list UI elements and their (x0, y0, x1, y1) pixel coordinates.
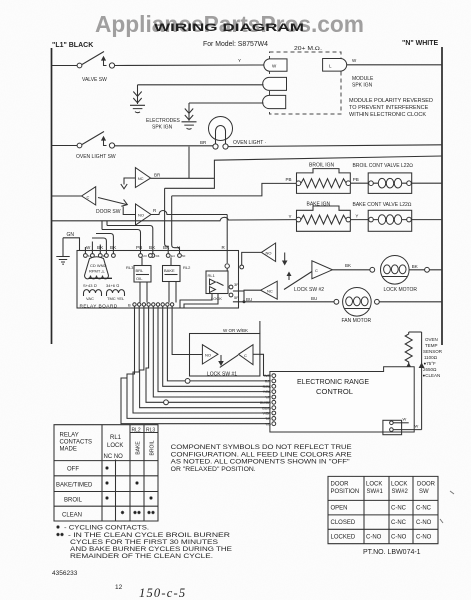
svg-text:C-NO: C-NO (391, 535, 407, 541)
svg-text:LOCKED: LOCKED (331, 535, 356, 541)
svg-text:WIRING DIAGRAM: WIRING DIAGRAM (154, 22, 304, 34)
svg-text:WITHIN ELECTRONIC CLOCK: WITHIN ELECTRONIC CLOCK (349, 112, 426, 118)
svg-text:2650Ω: 2650Ω (423, 367, 437, 372)
svg-text:For Model: S8757W4: For Model: S8757W4 (203, 41, 268, 48)
svg-text:VAC: VAC (86, 296, 94, 301)
svg-text:MODULE POLARITY REVERSED: MODULE POLARITY REVERSED (349, 98, 433, 104)
svg-text:BK: BK (412, 264, 418, 269)
svg-text:OIL: OIL (136, 276, 143, 281)
svg-text:C-NO: C-NO (366, 535, 382, 541)
svg-text:B: B (128, 303, 131, 308)
svg-text:BAKE CONT VALVE L22Ω: BAKE CONT VALVE L22Ω (353, 202, 412, 208)
svg-text:REMAINDER OF THE CLEAN CYCLE.: REMAINDER OF THE CLEAN CYCLE. (70, 554, 213, 560)
svg-text:CYCLES FOR THE FIRST 30 MINUTE: CYCLES FOR THE FIRST 30 MINUTES (70, 540, 218, 546)
svg-text:CD WND: CD WND (90, 263, 107, 268)
svg-text:20+ M.Ω.: 20+ M.Ω. (294, 46, 322, 52)
svg-text:- CYCLING CONTACTS.: - CYCLING CONTACTS. (64, 526, 149, 532)
svg-text:SPK IGN: SPK IGN (352, 83, 373, 89)
svg-text:SW#2: SW#2 (392, 489, 409, 495)
svg-text:POSITION: POSITION (331, 489, 360, 495)
svg-text:BK: BK (110, 245, 117, 250)
svg-text:RL3: RL3 (146, 428, 155, 434)
svg-text:LOCK: LOCK (391, 482, 407, 488)
svg-text:NO: NO (138, 213, 144, 218)
svg-text:R/BK: R/BK (263, 385, 272, 389)
svg-text:BROIL CONT VALVE L22Ω: BROIL CONT VALVE L22Ω (353, 163, 414, 169)
svg-text:MODULE: MODULE (352, 76, 374, 82)
svg-text:AND BAKE BURNER CYCLES DURING: AND BAKE BURNER CYCLES DURING THE (70, 547, 232, 553)
svg-text:LOCK: LOCK (107, 443, 123, 449)
svg-text:COMPONENT SYMBOLS DO NOT REFLE: COMPONENT SYMBOLS DO NOT REFLECT TRUE (171, 445, 352, 451)
svg-text:OVEN: OVEN (425, 337, 438, 342)
svg-text:12: 12 (115, 584, 123, 591)
svg-text:TO PREVENT INTERFERENCE: TO PREVENT INTERFERENCE (349, 105, 429, 111)
svg-text:Y: Y (289, 214, 292, 219)
svg-text:BU: BU (246, 297, 252, 302)
svg-text:3F: 3F (234, 282, 239, 287)
svg-text:FAN MOTOR: FAN MOTOR (342, 318, 372, 324)
svg-text:C-NC: C-NC (416, 506, 432, 512)
svg-text:NC NO: NC NO (104, 454, 124, 460)
svg-text:RPMT △: RPMT △ (89, 269, 105, 274)
svg-text:AS NOTED. ALL COMPONENTS SHOWN: AS NOTED. ALL COMPONENTS SHOWN IN "OFF" (171, 460, 350, 466)
svg-text:LOCK: LOCK (211, 296, 222, 301)
svg-text:OPEN: OPEN (331, 506, 348, 512)
svg-text:OFF: OFF (67, 467, 79, 473)
svg-text:RL2: RL2 (183, 265, 191, 270)
svg-text:W OR W/BK: W OR W/BK (223, 328, 248, 333)
svg-text:LOCK SW #2: LOCK SW #2 (294, 287, 324, 293)
svg-text:DOOR SW: DOOR SW (96, 209, 121, 215)
svg-text:MADE: MADE (60, 447, 77, 453)
svg-text:CLEAN: CLEAN (62, 513, 82, 519)
svg-text:RL3: RL3 (126, 265, 134, 270)
svg-text:RL2: RL2 (132, 428, 141, 434)
svg-text:C-NC: C-NC (391, 506, 407, 512)
svg-text:34+6 Ω: 34+6 Ω (106, 283, 119, 288)
svg-text:4356233: 4356233 (52, 570, 78, 577)
svg-text:23: 23 (143, 254, 147, 258)
svg-text:C: C (244, 353, 247, 358)
svg-text:C: C (315, 268, 318, 273)
svg-text:Y/D: Y/D (265, 422, 271, 426)
svg-text:BROIL: BROIL (64, 498, 83, 504)
svg-text:RELAY: RELAY (60, 433, 79, 439)
svg-text:W: W (403, 417, 407, 422)
svg-text:- IN THE CLEAN CYCLE BROIL BUR: - IN THE CLEAN CYCLE BROIL BURNER (68, 533, 231, 539)
svg-text:D4: D4 (156, 254, 160, 258)
svg-text:PB: PB (286, 177, 292, 182)
svg-text:CLOSED: CLOSED (331, 520, 356, 526)
svg-text:Y/R: Y/R (265, 396, 271, 400)
svg-text:NC: NC (267, 289, 273, 294)
svg-text:SENSOR: SENSOR (423, 349, 443, 354)
svg-text:C-NC: C-NC (391, 520, 407, 526)
svg-text:BAKE: BAKE (136, 441, 142, 455)
svg-text:OVEN LIGHT SW: OVEN LIGHT SW (76, 154, 116, 160)
svg-text:CONTACTS: CONTACTS (60, 440, 93, 446)
svg-text:VALVE SW: VALVE SW (82, 77, 107, 83)
svg-text:●CLEAN: ●CLEAN (423, 373, 441, 378)
svg-text:LOCK SW #1: LOCK SW #1 (207, 372, 237, 378)
svg-text:Y: Y (355, 214, 358, 219)
svg-text:PT.NO. LBW074-1: PT.NO. LBW074-1 (363, 549, 421, 556)
svg-text:PB: PB (353, 177, 359, 182)
svg-text:Y/BK: Y/BK (263, 390, 272, 394)
svg-text:BK: BK (97, 245, 104, 250)
svg-text:CONFIGURATION. ALL FEED LINE C: CONFIGURATION. ALL FEED LINE COLORS ARE (171, 452, 352, 458)
svg-text:E4: E4 (171, 254, 175, 258)
svg-text:BR: BR (200, 140, 207, 145)
svg-text:BR: BR (154, 173, 161, 178)
svg-text:"N" WHITE: "N" WHITE (402, 40, 439, 47)
svg-text:ELECTRODES: ELECTRODES (146, 118, 181, 124)
svg-text:C-NO: C-NO (416, 535, 432, 541)
svg-text:BU/BR: BU/BR (260, 401, 271, 405)
svg-text:C: C (87, 195, 90, 200)
svg-text:W: W (86, 245, 91, 250)
svg-text:5F: 5F (182, 254, 186, 258)
svg-text:BAKE/TIMED: BAKE/TIMED (56, 483, 93, 489)
svg-text:LOCK MOTOR: LOCK MOTOR (384, 287, 418, 293)
svg-text:BU/D: BU/D (262, 406, 271, 410)
svg-text:"L1" BLACK: "L1" BLACK (52, 42, 93, 49)
svg-text:●75°F: ●75°F (424, 361, 437, 366)
svg-text:BROIL IGN: BROIL IGN (309, 163, 334, 169)
svg-text:BAKE: BAKE (164, 268, 175, 273)
svg-text:W: W (415, 424, 419, 429)
svg-text:BK: BK (345, 263, 351, 268)
svg-text:TMC YEL: TMC YEL (107, 296, 125, 301)
svg-text:OVEN LIGHT ·: OVEN LIGHT · (233, 140, 267, 146)
svg-text:BK: BK (149, 245, 156, 250)
svg-text:ELECTRONIC RANGE: ELECTRONIC RANGE (297, 379, 369, 386)
svg-text:RL1: RL1 (208, 273, 216, 278)
svg-text:NC: NC (138, 176, 144, 181)
svg-text:DOOR: DOOR (331, 482, 350, 488)
svg-text:SPK IGN: SPK IGN (152, 125, 173, 131)
svg-text:SW: SW (419, 489, 429, 495)
svg-text:RL1: RL1 (110, 435, 122, 441)
svg-text:Y: Y (238, 58, 241, 63)
svg-text:W/D: W/D (264, 374, 271, 378)
svg-text:R/R: R/R (265, 380, 272, 384)
svg-text:C-NO: C-NO (416, 520, 432, 526)
svg-text:SW#1: SW#1 (367, 489, 384, 495)
svg-text:BROIL: BROIL (150, 440, 156, 455)
svg-text:BK: BK (163, 245, 170, 250)
svg-text:PB: PB (136, 245, 143, 250)
svg-text:Y: Y (177, 245, 180, 250)
svg-text:S+43 Ω: S+43 Ω (83, 283, 97, 288)
svg-text:V/BR: V/BR (263, 412, 272, 416)
svg-text:TEMP: TEMP (425, 343, 438, 348)
svg-text:DOOR: DOOR (417, 482, 436, 488)
svg-text:5F: 5F (234, 295, 239, 300)
svg-text:LOCK: LOCK (366, 482, 382, 488)
svg-text:BAKE IGN: BAKE IGN (307, 202, 331, 208)
svg-text:CONTROL: CONTROL (316, 389, 353, 396)
svg-text:OR "RELAXED" POSITION.: OR "RELAXED" POSITION. (171, 467, 256, 473)
svg-text:BRL: BRL (136, 268, 145, 273)
svg-text:T/R: T/R (265, 417, 271, 421)
svg-text:NO: NO (205, 353, 211, 358)
svg-text:RELAY BOARD: RELAY BOARD (80, 304, 118, 310)
svg-text:1100Ω: 1100Ω (424, 355, 438, 360)
svg-text:GN: GN (67, 232, 75, 238)
svg-text:BU: BU (311, 296, 317, 301)
svg-text:NO: NO (266, 251, 272, 256)
svg-text:150-c-5: 150-c-5 (139, 586, 186, 600)
